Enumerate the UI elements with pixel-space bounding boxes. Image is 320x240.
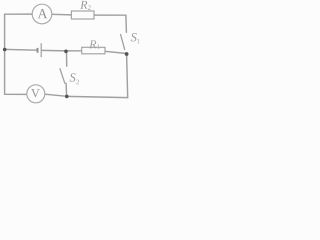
switch S2 xyxy=(60,69,79,85)
battery tall thin plate (positive) xyxy=(40,43,42,57)
wire middle rail left (left node to battery) xyxy=(5,48,37,51)
wire bottom rail middle (voltmeter to bottom node) xyxy=(45,94,67,96)
node junction bottom (bottom rail / S2 branch) xyxy=(65,95,69,99)
ammeter A xyxy=(32,4,52,24)
node junction right (middle rail / right wire) xyxy=(125,52,129,56)
switch S1 xyxy=(121,33,140,49)
voltmeter V xyxy=(27,85,45,103)
wire middle rail (battery to node B) xyxy=(42,49,66,52)
wire top rail middle (ammeter to R2) xyxy=(52,13,72,16)
wire S2 branch top stub xyxy=(66,51,68,66)
node junction B (middle rail / S2 branch) xyxy=(64,50,68,54)
wire left vertical (top corner to bottom corner) xyxy=(4,14,6,94)
wire right vertical lower (right node to bottom corner) xyxy=(127,54,128,98)
wire right vertical upper (corner down to S1 contact) xyxy=(125,15,128,32)
wire top rail right (R2 to top-right corner) xyxy=(94,14,126,16)
wire top rail left (corner to ammeter) xyxy=(5,13,33,15)
wire bottom rail right (bottom node to corner) xyxy=(67,96,128,97)
wire bottom rail left (corner to voltmeter) xyxy=(5,93,27,95)
switch S1 blade xyxy=(121,35,125,50)
wire S2 branch bottom stub xyxy=(65,83,68,96)
wire middle rail (node B to R1) xyxy=(66,50,82,52)
resistor R1 xyxy=(82,40,105,53)
battery short thick plate (negative) xyxy=(37,48,39,53)
switch S2 blade xyxy=(60,69,65,83)
battery cell xyxy=(38,43,42,57)
resistor R2 xyxy=(71,1,94,19)
wire middle rail (R1 to right node) xyxy=(105,51,127,53)
node junction left (middle rail / left wire) xyxy=(3,48,7,52)
